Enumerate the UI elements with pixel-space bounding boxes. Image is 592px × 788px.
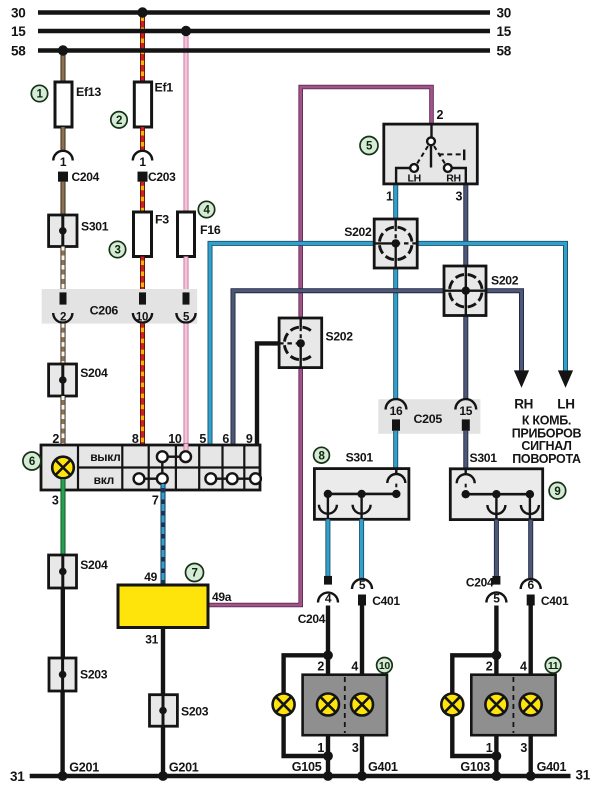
connector C206 pin 5 [176,292,195,323]
svg-text:RH: RH [514,397,533,412]
pin 49 label [144,570,157,584]
svg-text:1: 1 [317,741,324,755]
svg-text:S204: S204 [80,366,108,380]
splice S204 [49,364,108,396]
svg-text:3: 3 [456,190,463,204]
svg-text:G201: G201 [69,761,99,775]
wire light-blue horizontal to LH arrow [417,243,565,371]
svg-text:4: 4 [351,659,358,673]
svg-text:2: 2 [116,115,122,127]
fuse Ef1 [134,81,173,128]
svg-text:C401: C401 [372,594,400,608]
wire purple to switch pin2 [301,87,432,318]
label 6 [23,452,41,470]
wire light-blue S301 to C204 pin4 [325,519,330,576]
connector C205 pin 16 [386,399,407,431]
wire green hazard pin3 to S204 [61,479,66,555]
svg-text:16: 16 [390,404,403,418]
svg-text:G103: G103 [460,760,490,774]
svg-text:6: 6 [528,578,535,592]
junction bus30/Ef1 [137,7,147,17]
lamp cluster item 10 [303,675,387,736]
wire black left side repeater loop [284,650,333,761]
svg-text:S203: S203 [181,705,209,719]
svg-text:RH: RH [446,172,461,184]
svg-text:6: 6 [222,432,229,446]
svg-text:C204: C204 [298,612,326,626]
turn lamp 10a [317,694,339,716]
connector C206 pin 2 [53,292,72,323]
svg-text:F16: F16 [200,223,221,237]
wire pink bus15 to fuse F16 [184,31,189,212]
wire light-blue C205 to S301 [393,431,398,469]
splice S202 navy [444,266,519,316]
ground G103 [460,760,501,781]
pin 31 label [145,633,158,647]
svg-text:LH: LH [557,397,574,412]
label 9 [549,482,566,499]
label 10 [377,658,393,674]
connector C206 [42,289,198,324]
wire blue/black hazard pin7 to flasher [161,484,166,586]
wire black C204 to right lamp cluster [494,606,498,777]
splice S202 light-blue [344,219,417,268]
svg-text:1: 1 [486,741,493,755]
wire pink F16 to C206 [184,257,189,291]
wire light-blue S202 to C205 [393,268,398,401]
pin labels hazard bottom [52,494,159,508]
pin labels cluster 11 top [486,659,527,673]
svg-text:31: 31 [10,769,25,784]
wire black C204 to left lamp cluster [326,606,330,777]
splice S301 [49,215,109,247]
arrow RH [514,370,533,411]
connector C203 pin 1 [133,151,176,184]
connector C401 pin 5 [352,578,400,608]
side repeater lamp right [441,694,463,716]
svg-text:3: 3 [352,741,359,755]
svg-text:5: 5 [493,592,500,606]
connector C205 pin 15 [455,399,476,431]
svg-text:30: 30 [11,5,25,20]
wire black S204 to S203 [61,588,65,658]
wire black flasher 31 to ground [161,628,165,777]
svg-text:G201: G201 [169,761,199,775]
turn lamp 10b [351,694,373,716]
wire navy S202 to C205 [463,316,468,402]
wire black C401 to right lamp cluster [529,606,533,777]
wire pink C206 to switch pin10 [184,324,189,446]
svg-text:4: 4 [203,205,210,217]
svg-text:4: 4 [520,659,527,673]
pin 2 switch [437,108,444,122]
svg-text:5: 5 [359,578,366,592]
label 2 [111,112,127,128]
wire red/yellow C206 to switch pin8 [140,324,145,446]
svg-text:7: 7 [152,494,159,508]
svg-text:C206: C206 [90,304,119,318]
pin labels cluster 10 bottom [317,741,359,755]
pin labels cluster 11 bottom [486,741,528,755]
svg-text:C401: C401 [541,594,569,608]
wire brown/white S204 to switch pin2 [61,396,66,446]
svg-text:G401: G401 [537,760,567,774]
wire black hazard pin9 to S202 [257,343,279,446]
wire light-blue S301 to C401 pin5 [359,519,364,578]
pin 49a label [212,590,232,604]
fuse F16 [178,212,221,257]
wire red/yellow bus30 to fuse Ef1 [140,13,145,83]
svg-text:2: 2 [52,432,59,446]
svg-text:1: 1 [60,155,67,169]
connector C204 pin 1 [53,151,99,184]
svg-text:10: 10 [168,432,182,446]
wire red/yellow C203 to F3 [140,182,145,212]
wire black S203 to ground G201 [60,691,64,776]
ground G201 middle [158,761,199,781]
svg-text:3: 3 [52,494,59,508]
svg-text:Ef1: Ef1 [155,81,174,95]
splice S203 left [49,658,108,691]
wire navy S301 to C401 pin6 [528,520,533,578]
turn lamp 11a [485,694,507,716]
svg-text:S202: S202 [326,330,354,344]
ground G401 right [526,760,567,781]
connector C401 pin 6 [521,578,569,608]
wire red/yellow Ef1 to C203 [140,127,145,152]
splice S202 purple [279,318,353,368]
label 3 [109,241,125,257]
wire navy C205 to S301 [463,431,468,469]
svg-text:49: 49 [144,570,157,584]
wire brown/white S301 to C206 [61,247,66,291]
svg-text:S204: S204 [80,558,108,572]
svg-text:выкл: выкл [90,450,120,464]
svg-text:1: 1 [139,155,146,169]
connector C205 [378,399,480,434]
label 7 [186,564,204,582]
pin labels hazard top [52,432,253,446]
wire light-blue horizontal to hazard pin5 [210,243,374,446]
svg-text:Ef13: Ef13 [76,85,101,99]
svg-text:5: 5 [366,141,373,153]
svg-text:S301: S301 [346,451,374,465]
label 8 [314,447,330,463]
svg-text:10: 10 [136,311,148,323]
label 5 [360,137,378,155]
svg-text:8: 8 [132,432,139,446]
svg-text:2: 2 [437,108,444,122]
svg-text:LH: LH [407,172,420,184]
wire navy switch pin3 to S202 [463,184,468,267]
svg-text:2: 2 [317,659,324,673]
ground G105 [292,760,333,781]
svg-text:30: 30 [497,5,511,20]
connector C204 pin 4 [298,576,338,626]
svg-text:F3: F3 [155,213,169,227]
pin 3 switch [456,190,463,204]
wire brown C204 to S301 [61,182,66,215]
junction bus15/F16 [181,26,191,36]
svg-text:1: 1 [386,190,393,204]
svg-text:15: 15 [459,404,472,418]
splice S203 middle [150,695,209,727]
svg-text:58: 58 [11,43,26,58]
svg-text:15: 15 [497,24,512,39]
hazard switch item 6 [41,445,260,490]
svg-text:1: 1 [36,89,43,101]
wire light-blue switch pin1 to S202 [393,184,398,220]
svg-text:31: 31 [576,768,591,783]
svg-text:S202: S202 [344,225,372,239]
svg-text:6: 6 [29,456,35,468]
svg-text:4: 4 [325,592,332,606]
svg-text:S202: S202 [491,274,519,288]
bus 58 [11,43,512,58]
fuse Ef13 [55,82,101,127]
junction bus58/Ef13 [58,45,68,55]
svg-text:2: 2 [486,659,493,673]
svg-text:S301: S301 [470,451,498,465]
svg-text:11: 11 [548,660,559,672]
wire navy horizontal to hazard pin6 [233,291,444,446]
svg-text:S203: S203 [80,668,108,682]
hazard indicator lamp [52,457,74,479]
turn lamp 11b [520,694,542,716]
svg-text:9: 9 [554,486,560,498]
note to combination meter turn signal [512,414,582,466]
bus 15 [11,24,512,39]
svg-text:C204: C204 [72,170,100,184]
bus 31 ground [10,768,591,784]
svg-text:C205: C205 [414,412,443,426]
svg-text:9: 9 [246,432,253,446]
svg-text:3: 3 [114,245,120,257]
svg-text:C204: C204 [466,576,494,590]
hazard contacts on row [134,473,261,484]
wire brown bus58 to fuse Ef13 [61,51,66,83]
svg-text:31: 31 [145,633,158,647]
label 11 [545,658,561,674]
svg-text:58: 58 [497,43,512,58]
wire purple flasher 49a run [208,368,301,605]
hazard contacts off row [157,451,191,478]
wire brown Ef13 to C204 [61,127,66,152]
connector C204 pin 5 [466,576,507,606]
svg-text:2: 2 [60,311,66,323]
svg-text:49a: 49a [212,590,232,604]
label 4 [198,201,214,217]
wire navy horizontal to RH arrow [486,291,522,371]
wire navy S301 to C204 pin5 [494,520,499,576]
svg-text:G401: G401 [368,760,398,774]
connector C206 pin 10 [133,292,152,323]
wire pink into switch pin10 [184,444,189,451]
svg-text:5: 5 [183,311,190,323]
wire black C401 to left lamp cluster [360,606,364,777]
svg-text:G105: G105 [292,760,322,774]
arrow LH [557,370,574,411]
ground G201 left [58,761,100,781]
lamp cluster item 11 [471,675,555,736]
wire black right side repeater loop [452,650,501,761]
fuse F3 [134,212,170,257]
pin 1 switch [386,190,393,204]
wire brown/white C206 to S204 [61,324,66,364]
ground G401 left [357,760,398,781]
svg-text:S301: S301 [81,220,109,234]
bus 30 [11,5,511,20]
svg-text:8: 8 [318,450,325,462]
svg-text:3: 3 [520,741,527,755]
svg-text:C203: C203 [148,170,176,184]
svg-text:5: 5 [199,432,206,446]
svg-text:ПОВОРОТА: ПОВОРОТА [512,452,581,466]
flasher unit item 7 [118,585,208,628]
side repeater lamp left [273,694,295,716]
wire red/yellow F3 to C206 [140,257,145,291]
splice S301 left item 8 [314,451,409,520]
svg-text:15: 15 [11,24,26,39]
splice S301 right item 9 [450,451,542,520]
svg-text:7: 7 [191,568,197,580]
turn signal switch item 5 [384,124,478,184]
label 1 [31,85,47,101]
svg-text:10: 10 [379,660,391,672]
splice S204 lower [49,555,108,588]
pin labels cluster 10 top [317,659,358,673]
svg-text:вкл: вкл [94,473,114,487]
